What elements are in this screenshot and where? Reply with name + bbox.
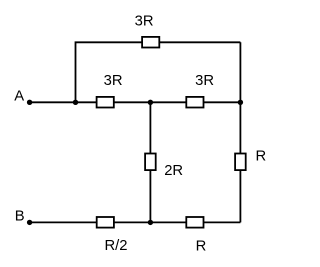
resistor R/2 (row B, left) <box>97 217 114 228</box>
junction dot: row A / middle vertical <box>148 100 153 105</box>
wire: right vertical (top loop down to row B) <box>239 42 241 222</box>
label: node A <box>14 88 24 104</box>
value label R (row B, right) <box>196 238 207 254</box>
resistor 3R (top branch) <box>142 37 159 48</box>
svg-text:B: B <box>15 208 25 224</box>
label: node B <box>15 208 25 224</box>
svg-text:R: R <box>196 238 207 254</box>
svg-text:R/2: R/2 <box>105 238 128 254</box>
svg-text:3R: 3R <box>135 13 154 29</box>
svg-text:2R: 2R <box>164 163 183 179</box>
value label 2R (middle vertical) <box>164 163 183 179</box>
value label R (right vertical) <box>256 148 267 164</box>
svg-text:R: R <box>256 148 267 164</box>
svg-text:3R: 3R <box>195 73 214 89</box>
value label 3R (row A, left) <box>104 73 123 89</box>
svg-text:A: A <box>14 88 24 104</box>
resistor R (right vertical) <box>235 154 246 171</box>
terminal node A dot <box>27 100 32 105</box>
resistor 3R (row A, right) <box>186 97 203 108</box>
svg-text:3R: 3R <box>104 73 123 89</box>
wire: top loop (left vertical, top horizontal, part of right vertical) <box>76 42 241 102</box>
wire: row A horizontal from terminal A to right vertical <box>30 101 241 103</box>
value label 3R (row A, right) <box>195 73 214 89</box>
value label R/2 (row B, left) <box>105 238 128 254</box>
wire: row B horizontal from terminal B to bottom-right corner <box>30 221 241 223</box>
junction dot: row B / middle vertical <box>148 220 153 225</box>
junction dot: row A / left vertical <box>73 100 78 105</box>
terminal node B dot <box>27 220 32 225</box>
value label 3R (top branch) <box>135 13 154 29</box>
wire: middle vertical (node between 3R resistors down to row B) <box>149 102 151 222</box>
resistor R (row B, right) <box>186 217 203 228</box>
junction dot: row A / right vertical <box>238 100 243 105</box>
resistor 3R (row A, left) <box>97 97 114 108</box>
resistor 2R (middle vertical) <box>145 154 156 171</box>
